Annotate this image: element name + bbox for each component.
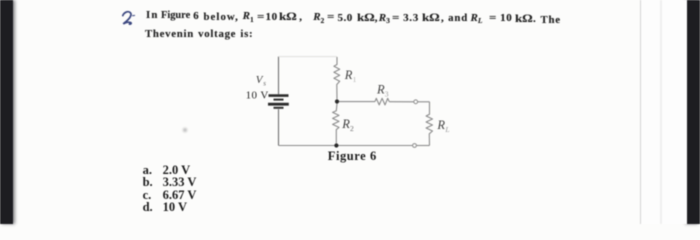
svg-text:1: 1 <box>353 75 357 84</box>
open terminal (bottom) <box>413 144 417 148</box>
bright paper strip right of fold <box>641 0 687 224</box>
wire: battery top lead <box>278 57 280 95</box>
svg-text:R: R <box>341 117 350 131</box>
svg-text:10 V: 10 V <box>246 89 269 101</box>
stray scan speck <box>183 128 187 132</box>
option d letter <box>143 201 153 214</box>
svg-text:s: s <box>263 80 266 88</box>
wire: R3 to open terminal <box>389 101 414 103</box>
svg-text:L: L <box>444 125 449 134</box>
left dark scan bar <box>0 0 13 224</box>
option c letter <box>143 189 152 202</box>
problem text line 2 <box>145 29 253 40</box>
resistor R1 (vertical zigzag) <box>334 57 340 99</box>
wire: terminal to RL top corner <box>418 101 430 103</box>
svg-text:R: R <box>376 83 385 97</box>
option b value <box>163 176 197 189</box>
wire: bottom rail <box>279 145 413 147</box>
option a value <box>163 164 191 177</box>
caption Figure 6 <box>328 150 377 163</box>
circuit schematic <box>230 50 480 168</box>
problem text line 1 (drooping scan baseline, token-positioned) <box>146 10 159 21</box>
svg-text:2: 2 <box>350 124 354 133</box>
wire: faint top rail to R1 <box>279 56 338 58</box>
wire: battery bottom lead <box>278 109 280 145</box>
faint page fold line 1 <box>640 0 642 224</box>
right dark scan bar <box>687 0 700 224</box>
node dot (junction R1/R2/R3) <box>335 99 339 103</box>
handwritten item number 2 (blue ink) <box>118 10 141 26</box>
open terminal (top) <box>414 100 418 104</box>
option b letter <box>143 176 153 189</box>
svg-text:R: R <box>436 118 445 132</box>
option a letter <box>143 164 152 177</box>
resistor R3 (horizontal zigzag) <box>375 98 389 105</box>
resistor R2 (vertical zigzag) <box>333 104 339 144</box>
wire: node to R3 <box>339 101 375 103</box>
wire: bottom terminal to RL <box>416 145 429 147</box>
battery V_s plates <box>268 96 289 108</box>
junction dot (bottom of R2) <box>334 143 338 147</box>
option c value <box>163 189 197 202</box>
svg-text:3: 3 <box>385 89 389 98</box>
faint page fold line 2 <box>660 0 662 224</box>
option d value <box>163 201 187 214</box>
svg-text:R: R <box>344 68 353 82</box>
resistor RL (vertical zigzag) <box>426 102 432 146</box>
